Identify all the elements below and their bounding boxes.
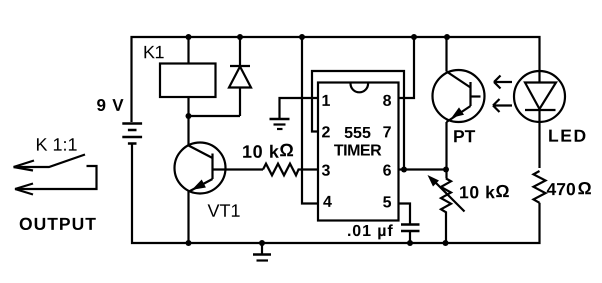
svg-text:1: 1	[322, 93, 331, 110]
svg-text:V: V	[112, 96, 124, 115]
svg-text:2: 2	[321, 124, 330, 141]
svg-text:470Ω: 470Ω	[546, 178, 591, 199]
svg-text:K1: K1	[143, 42, 165, 62]
svg-text:TIMER: TIMER	[334, 143, 382, 160]
svg-text:OUTPUT: OUTPUT	[19, 214, 97, 234]
svg-text:555: 555	[344, 125, 371, 142]
svg-text:3: 3	[321, 163, 330, 180]
svg-text:8: 8	[383, 93, 392, 110]
svg-text:4: 4	[323, 194, 332, 211]
svg-text:7: 7	[383, 124, 392, 141]
svg-text:6: 6	[383, 163, 392, 180]
svg-text:LED: LED	[548, 126, 588, 146]
svg-text:.01 µf: .01 µf	[347, 223, 394, 240]
svg-text:10 kΩ: 10 kΩ	[459, 181, 510, 202]
svg-text:VT1: VT1	[207, 201, 240, 221]
svg-text:10 kΩ: 10 kΩ	[242, 140, 294, 162]
svg-text:9: 9	[97, 96, 106, 115]
svg-text:PT: PT	[453, 126, 476, 146]
svg-text:5: 5	[383, 194, 392, 211]
svg-text:K 1:1: K 1:1	[35, 135, 77, 155]
